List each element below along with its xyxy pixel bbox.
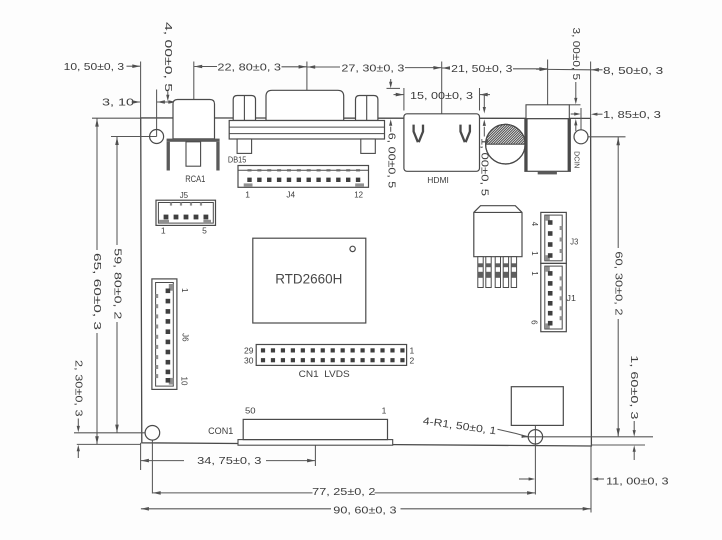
svg-text:RTD2660H: RTD2660H bbox=[275, 271, 342, 286]
barrel diameter line bbox=[486, 143, 526, 145]
svg-text:27, 30±0, 3: 27, 30±0, 3 bbox=[341, 63, 404, 74]
connector CN1 LVDS bbox=[256, 345, 406, 366]
J4 pins bbox=[247, 178, 251, 182]
dimension 11,00±0,3 hole BR center to board right edge bbox=[519, 478, 530, 480]
svg-text:90, 60±0, 3: 90, 60±0, 3 bbox=[333, 505, 397, 516]
extension line hole BL down bbox=[151, 440, 153, 493]
U1 pin1 dot bbox=[350, 246, 355, 251]
extension line HDMI left edge bbox=[403, 88, 405, 111]
extension line hole TR horizontal bbox=[588, 136, 626, 138]
extension line board top edge left bbox=[92, 117, 141, 119]
HDMI latch icon left bbox=[414, 125, 423, 143]
extension line HDMI right edge bbox=[479, 88, 481, 111]
extension line DC jack top edge right bbox=[569, 104, 580, 106]
svg-text:11, 00±0, 3: 11, 00±0, 3 bbox=[606, 476, 669, 487]
IC U1 RTD2660H bbox=[253, 238, 366, 323]
DC jack bottom tab bbox=[538, 171, 557, 174]
extension line board bottom edge right bbox=[591, 444, 645, 446]
svg-text:29: 29 bbox=[244, 345, 254, 355]
extension line board right edge down bbox=[590, 446, 592, 513]
connector J5 bbox=[156, 200, 216, 225]
svg-text:1, 85±0, 3: 1, 85±0, 3 bbox=[603, 110, 661, 121]
RCA1 center pin bbox=[186, 142, 201, 166]
J5 top ticks bbox=[170, 203, 172, 206]
extension line RCA1 center bbox=[193, 62, 195, 100]
J6 pins bbox=[166, 289, 171, 294]
J5 pins bbox=[164, 215, 169, 220]
connector J4 bbox=[238, 166, 369, 188]
svg-text:6: 6 bbox=[529, 320, 538, 325]
J4 notch right bbox=[355, 183, 364, 187]
component K1 small box bottom right bbox=[511, 387, 563, 426]
svg-text:10: 10 bbox=[180, 377, 189, 386]
extension line hole BL horizontal bbox=[74, 432, 145, 434]
mounting hole BL bbox=[145, 426, 160, 441]
svg-text:30: 30 bbox=[244, 356, 254, 366]
svg-text:10, 50±0, 3: 10, 50±0, 3 bbox=[64, 62, 125, 73]
svg-text:8, 50±0, 3: 8, 50±0, 3 bbox=[603, 66, 664, 77]
svg-text:65, 60±0, 3: 65, 60±0, 3 bbox=[91, 253, 102, 330]
extension line hole TR vertical bbox=[580, 108, 582, 130]
connector HDMI bbox=[404, 114, 480, 172]
extension line CON1 center down bbox=[314, 445, 316, 466]
J6 notch bottom bbox=[169, 378, 174, 385]
svg-text:4, 00±0, 5: 4, 00±0, 5 bbox=[162, 22, 173, 92]
mounting hole TR bbox=[574, 130, 588, 144]
extension line hole TL vertical bbox=[156, 90, 158, 137]
PCB board outline bbox=[141, 118, 592, 446]
J5 notch left bbox=[159, 220, 169, 223]
svg-text:1: 1 bbox=[530, 251, 539, 256]
svg-text:22, 80±0, 3: 22, 80±0, 3 bbox=[217, 63, 281, 74]
svg-text:J6: J6 bbox=[180, 333, 189, 342]
connector J6 bbox=[152, 279, 177, 390]
HDMI latch icon right bbox=[461, 125, 470, 143]
svg-text:59, 80±0, 2: 59, 80±0, 2 bbox=[112, 248, 123, 319]
svg-text:1: 1 bbox=[245, 189, 250, 199]
svg-text:34, 75±0, 3: 34, 75±0, 3 bbox=[197, 456, 262, 467]
svg-text:CON1: CON1 bbox=[208, 426, 233, 436]
RCA1 right leg bbox=[216, 142, 219, 171]
svg-text:6, 00±0, 5: 6, 00±0, 5 bbox=[385, 133, 396, 189]
mounting hole TL bbox=[150, 130, 164, 144]
extension line board right edge up bbox=[590, 62, 592, 119]
J3 notch top bbox=[545, 216, 550, 221]
svg-text:60, 30±0, 2: 60, 30±0, 2 bbox=[613, 251, 624, 316]
DB15 right screw post bbox=[356, 96, 378, 121]
extension line board bottom edge left bbox=[77, 443, 141, 445]
svg-text:J5: J5 bbox=[180, 190, 189, 200]
svg-text:1: 1 bbox=[382, 406, 387, 416]
extension line DB15 center bbox=[306, 62, 308, 91]
connector CON1 base bbox=[238, 440, 393, 446]
connector RCA1 body bbox=[173, 100, 215, 139]
svg-text:1, 60±0, 3: 1, 60±0, 3 bbox=[628, 355, 639, 420]
svg-text:21, 50±0, 3: 21, 50±0, 3 bbox=[451, 64, 513, 75]
dimension 21,50±0,3 HDMI center to DC jack center bbox=[442, 66, 450, 70]
connector DB15 shell bbox=[266, 90, 344, 120]
svg-text:1: 1 bbox=[410, 345, 415, 355]
DB15 left leg bbox=[237, 139, 252, 153]
DB15 left screw post bbox=[233, 96, 255, 121]
RCA1 flange bbox=[167, 139, 220, 142]
dimension 1,00±0,5 HDMI top to board top edge bbox=[483, 95, 485, 108]
dimension 59,80±0,2 hole TL to hole BL bbox=[116, 137, 118, 245]
svg-text:RCA1: RCA1 bbox=[185, 174, 205, 185]
extension line HDMI center bbox=[441, 62, 443, 114]
dimension 22,80±0,3 RCA1 center to DB15 center bbox=[194, 65, 202, 69]
CN1 pins row 2 bbox=[261, 358, 265, 362]
voltage regulator Q1 body bbox=[474, 206, 522, 257]
extension line hole BR down bbox=[534, 426, 536, 495]
svg-text:1: 1 bbox=[530, 271, 539, 276]
svg-text:12: 12 bbox=[354, 189, 363, 199]
J3 notch bottom bbox=[545, 255, 550, 260]
svg-text:2, 30±0, 3: 2, 30±0, 3 bbox=[73, 360, 84, 417]
extension line hole BR horizontal bbox=[524, 436, 653, 438]
extension line hole TL horizontal bbox=[111, 136, 157, 138]
J1 notch top bbox=[545, 267, 550, 272]
J6 notch top bbox=[169, 284, 174, 291]
RCA1 left leg bbox=[167, 142, 170, 171]
J1 pins bbox=[548, 271, 553, 276]
svg-text:3, 10: 3, 10 bbox=[102, 98, 134, 109]
svg-text:15, 00±0, 3: 15, 00±0, 3 bbox=[410, 91, 473, 102]
svg-text:3, 00±0, 5: 3, 00±0, 5 bbox=[570, 28, 581, 81]
J4 notch left bbox=[244, 183, 253, 187]
svg-text:5: 5 bbox=[202, 226, 207, 236]
svg-text:1: 1 bbox=[161, 226, 166, 236]
svg-text:J3: J3 bbox=[570, 236, 578, 246]
J5 notch right bbox=[203, 220, 211, 223]
svg-text:J1: J1 bbox=[567, 293, 577, 303]
svg-text:CN1 LVDS: CN1 LVDS bbox=[299, 369, 350, 379]
svg-text:4: 4 bbox=[530, 222, 539, 227]
regulator legs bbox=[478, 257, 483, 288]
J1 notch bottom bbox=[545, 323, 550, 328]
DC jack plug part bbox=[526, 105, 569, 119]
extension line DC jack center bbox=[547, 60, 549, 105]
extension line board left edge up bbox=[140, 62, 142, 118]
DB15 main body bbox=[229, 121, 384, 140]
svg-text:DCIN: DCIN bbox=[573, 151, 582, 168]
CON1 main body bbox=[243, 419, 387, 439]
extension line board left edge down bbox=[140, 443, 142, 470]
mounting hole BR bbox=[528, 430, 542, 444]
svg-text:J4: J4 bbox=[286, 189, 295, 199]
connector J1 bbox=[541, 263, 567, 331]
svg-text:DB15: DB15 bbox=[228, 154, 247, 164]
DC jack body bbox=[525, 119, 570, 172]
svg-text:HDMI: HDMI bbox=[427, 175, 449, 185]
connector J3 bbox=[541, 212, 567, 263]
svg-text:77, 25±0, 2: 77, 25±0, 2 bbox=[312, 487, 376, 498]
CN1 pins row 1 bbox=[261, 348, 265, 352]
J3 pins bbox=[548, 220, 553, 225]
svg-text:50: 50 bbox=[245, 405, 256, 415]
dimension 27,30±0,3 DB15 center to HDMI center bbox=[307, 65, 315, 69]
dimension 4,00±0,5 hole center to RCA1 left edge bbox=[157, 100, 165, 104]
svg-text:2: 2 bbox=[410, 356, 415, 366]
svg-text:1: 1 bbox=[180, 288, 189, 293]
dimension 8,50±0,3 DC jack center to board right edge bbox=[536, 68, 548, 70]
DB15 right leg bbox=[361, 139, 376, 153]
extension line DB15 shell top right bbox=[387, 87, 401, 89]
